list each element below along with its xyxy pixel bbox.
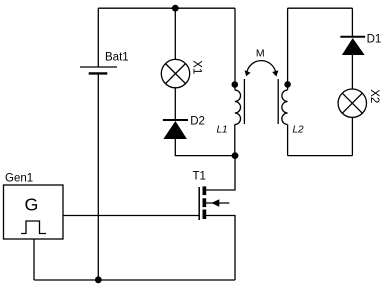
- wire battery top lead: [97, 8, 99, 67]
- wire Gen1 bottom lead: [33, 239, 35, 280]
- wire X1 top lead: [174, 8, 176, 59]
- svg-text:X2: X2: [368, 89, 380, 103]
- svg-text:L2: L2: [293, 124, 305, 135]
- wire drain lead: [206, 156, 235, 190]
- wire L1 top lead: [234, 8, 236, 90]
- lamp X2: [338, 89, 366, 117]
- wire source lead: [206, 216, 235, 281]
- mutual coupling M arc: [247, 61, 276, 74]
- wire L1 bottom lead: [234, 125, 236, 156]
- phase dot L1: [232, 81, 239, 88]
- node junction top bus: [172, 5, 179, 12]
- transformer core right bar: [277, 79, 279, 124]
- node junction drain/L1/D2: [232, 152, 239, 159]
- svg-text:T1: T1: [193, 170, 206, 182]
- wire top bus of primary loop: [98, 7, 235, 9]
- phase dot L2: [284, 81, 291, 88]
- wire D2 bottom to junction: [175, 139, 235, 156]
- wire D1 to X2: [351, 55, 353, 89]
- node junction bottom bus: [95, 276, 102, 283]
- battery Bat1: [80, 67, 117, 73]
- svg-text:D2: D2: [190, 116, 205, 128]
- transformer core left bar: [243, 79, 245, 124]
- MOSFET T1 channel top bar (drain): [203, 186, 207, 195]
- MOSFET T1 bulk arrow: [206, 199, 229, 206]
- svg-text:Bat1: Bat1: [105, 51, 129, 63]
- diode D1: [340, 37, 365, 55]
- wire X1 to D2: [174, 88, 176, 119]
- svg-text:G: G: [25, 195, 39, 215]
- svg-text:Gen1: Gen1: [5, 173, 33, 185]
- diode D2: [163, 120, 188, 139]
- wire top bus of secondary loop: [288, 7, 353, 9]
- inductor L2 winding: [282, 90, 288, 125]
- wire battery bottom lead: [97, 73, 99, 280]
- wire bottom bus: [34, 279, 235, 281]
- wire gate lead from Gen1: [63, 215, 200, 217]
- lamp X1: [161, 59, 189, 87]
- wire X2 bottom lead: [351, 117, 353, 155]
- inductor L1 winding: [235, 90, 241, 125]
- svg-text:D1: D1: [367, 33, 382, 45]
- svg-text:X1: X1: [190, 60, 202, 74]
- wire D1 top lead: [351, 8, 353, 36]
- MOSFET T1 gate electrode: [198, 187, 200, 220]
- wire L2 bottom lead: [287, 125, 289, 156]
- MOSFET T1 channel middle bar (bulk): [203, 198, 207, 207]
- generator Gen1 box: [4, 185, 64, 239]
- coupling arrowhead left: [245, 70, 251, 76]
- wire bottom bus of secondary loop: [288, 155, 353, 157]
- generator pulse symbol: [21, 221, 46, 234]
- svg-text:L1: L1: [217, 124, 228, 135]
- MOSFET T1 channel bottom bar (source): [203, 210, 207, 220]
- coupling arrowhead right: [272, 70, 278, 76]
- svg-text:M: M: [256, 48, 265, 60]
- wire L2 top lead: [287, 8, 289, 90]
